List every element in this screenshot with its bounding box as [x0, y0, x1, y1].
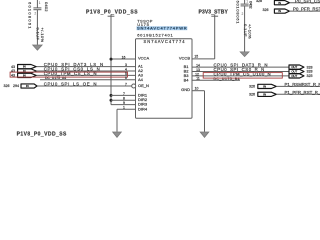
svg-text:P1V8_P0_VDD_SS: P1V8_P0_VDD_SS	[86, 10, 138, 16]
svg-text:P0_PFR_RST_N: P0_PFR_RST_N	[293, 7, 320, 12]
svg-text:+/-10%: +/-10%	[40, 28, 45, 43]
svg-text:2: 2	[34, 11, 36, 15]
svg-text:0402: 0402	[44, 2, 49, 12]
svg-text:43: 43	[11, 69, 15, 73]
svg-text:GND: GND	[181, 87, 190, 92]
svg-text:OUT: OUT	[291, 70, 297, 74]
svg-text:OUT: OUT	[291, 74, 297, 78]
svg-text:P3V3_STBY: P3V3_STBY	[199, 10, 229, 16]
svg-text:IN: IN	[278, 9, 281, 13]
svg-text:SN74AVC4T774PWR: SN74AVC4T774PWR	[137, 26, 187, 31]
svg-text:7: 7	[125, 82, 127, 86]
svg-text:VCCA: VCCA	[138, 56, 149, 61]
svg-text:IN: IN	[278, 1, 281, 5]
svg-text:A4: A4	[138, 77, 144, 82]
svg-text:326: 326	[4, 84, 10, 88]
svg-text:OUT: OUT	[291, 65, 297, 69]
svg-text:B4: B4	[184, 77, 190, 82]
svg-text:60108061: 60108061	[235, 1, 240, 25]
svg-text:1: 1	[123, 106, 125, 110]
svg-text:326: 326	[263, 8, 269, 12]
svg-text:326: 326	[249, 93, 255, 97]
svg-text:328: 328	[256, 0, 262, 3]
svg-text:15: 15	[194, 54, 198, 58]
svg-text:1: 1	[246, 0, 248, 3]
svg-text:DIR4: DIR4	[138, 106, 148, 111]
svg-text:CPU0_SPI_LS_OE_N: CPU0_SPI_LS_OE_N	[44, 82, 97, 87]
svg-text:326: 326	[249, 85, 255, 89]
svg-text:10: 10	[195, 87, 199, 91]
svg-text:P1V8_P0_VDD_SS: P1V8_P0_VDD_SS	[17, 131, 67, 137]
svg-text:P1_PFR_RST_R_N: P1_PFR_RST_R_N	[285, 90, 320, 95]
svg-text:8: 8	[123, 97, 125, 101]
svg-text:VCCB: VCCB	[179, 56, 190, 61]
svg-text:0402: 0402	[249, 1, 254, 9]
svg-text:43: 43	[11, 65, 15, 69]
svg-text:6: 6	[125, 76, 127, 80]
svg-text:5: 5	[125, 72, 127, 76]
svg-text:IN: IN	[263, 92, 266, 96]
svg-text:328: 328	[307, 70, 313, 74]
svg-text:3: 3	[125, 63, 127, 67]
svg-text:16: 16	[122, 55, 126, 59]
svg-text:OE_N: OE_N	[138, 83, 149, 88]
svg-text:P1_RSMRST_R_N: P1_RSMRST_R_N	[285, 82, 320, 87]
svg-text:1: 1	[39, 1, 41, 5]
svg-text:IN: IN	[263, 84, 266, 88]
svg-text:SN74AVC4T774: SN74AVC4T774	[144, 39, 186, 44]
svg-text:4: 4	[125, 67, 127, 71]
svg-text:9: 9	[123, 101, 125, 105]
svg-text:+/-10%: +/-10%	[247, 24, 252, 39]
svg-text:IN: IN	[26, 84, 29, 88]
svg-text:6019B1527401: 6019B1527401	[137, 32, 173, 37]
svg-text:7: 7	[123, 92, 125, 96]
svg-text:325: 325	[307, 74, 313, 78]
svg-text:P0_SPI_CS0_N: P0_SPI_CS0_N	[295, 0, 320, 3]
svg-text:294: 294	[13, 84, 19, 88]
svg-text:60108061: 60108061	[28, 2, 33, 29]
svg-text:IN: IN	[23, 65, 26, 69]
svg-text:DC_U175_B4: DC_U175_B4	[214, 77, 240, 81]
svg-text:2: 2	[242, 12, 244, 16]
svg-text:328: 328	[307, 65, 313, 69]
